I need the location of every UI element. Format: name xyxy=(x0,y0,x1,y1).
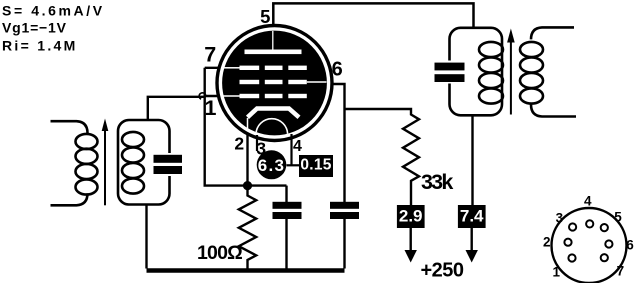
svg-text:+250: +250 xyxy=(421,260,464,282)
svg-text:1: 1 xyxy=(205,96,217,120)
svg-text:33k: 33k xyxy=(421,170,453,194)
svg-text:3: 3 xyxy=(556,210,564,225)
svg-text:Vg1=−1V: Vg1=−1V xyxy=(2,20,67,36)
svg-text:7.4: 7.4 xyxy=(460,207,484,226)
svg-text:7: 7 xyxy=(204,42,216,66)
svg-text:100Ω: 100Ω xyxy=(197,242,242,264)
svg-text:5: 5 xyxy=(260,6,270,27)
svg-text:6: 6 xyxy=(626,237,634,252)
svg-text:2.9: 2.9 xyxy=(399,207,423,226)
svg-text:1: 1 xyxy=(552,264,560,279)
svg-text:7: 7 xyxy=(617,264,625,279)
svg-text:4: 4 xyxy=(293,138,302,155)
svg-text:2: 2 xyxy=(234,133,244,153)
svg-text:3: 3 xyxy=(256,139,266,159)
svg-text:4: 4 xyxy=(584,193,592,208)
svg-text:Ri= 1.4M: Ri= 1.4M xyxy=(2,38,78,54)
svg-text:6.3: 6.3 xyxy=(258,156,286,175)
svg-text:5: 5 xyxy=(614,209,622,224)
svg-text:S= 4.6mA/V: S= 4.6mA/V xyxy=(2,3,105,19)
svg-text:0.15: 0.15 xyxy=(300,157,331,174)
svg-text:6: 6 xyxy=(332,59,343,81)
svg-text:2: 2 xyxy=(543,234,551,249)
